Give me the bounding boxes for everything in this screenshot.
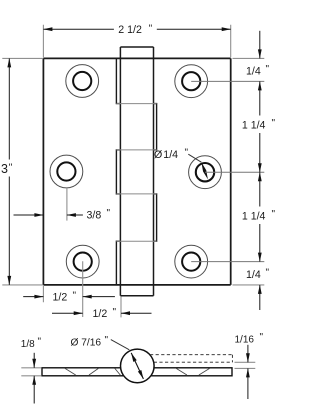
bottom 1/2 dimensions extension lines [43, 261, 121, 317]
dashed folded leaf [150, 355, 232, 363]
extension lines left dimension [2, 58, 43, 285]
dimension line 2 1/2 inch [43, 28, 230, 30]
barrel circle side view [121, 349, 155, 383]
1/8 dimension [21, 368, 41, 376]
svg-text:": " [272, 209, 276, 220]
diameter arrow inside circle [131, 353, 143, 379]
hole middle-right with screw slot [189, 156, 222, 189]
svg-text:Ø 7/16: Ø 7/16 [71, 337, 102, 348]
svg-text:": " [266, 64, 270, 75]
svg-text:1/4: 1/4 [246, 269, 261, 281]
svg-text:1/4: 1/4 [163, 149, 178, 161]
svg-text:1/8: 1/8 [21, 339, 35, 350]
svg-text:": " [272, 118, 276, 129]
svg-text:": " [107, 208, 111, 219]
1/16 dimension [235, 362, 256, 368]
right leaf knuckle protrusions with hooks [154, 104, 157, 242]
right chain dimension arrows [259, 31, 261, 310]
3/8 dimension [66, 188, 68, 221]
svg-text:": " [105, 335, 109, 346]
side view leaf bar [42, 368, 232, 376]
svg-text:3/8: 3/8 [87, 210, 102, 222]
svg-text:": " [260, 332, 264, 343]
hole bottom-right [175, 245, 208, 278]
svg-text:Ø: Ø [154, 149, 162, 161]
svg-text:": " [266, 267, 270, 278]
svg-text:1/16: 1/16 [235, 334, 255, 345]
svg-text:": " [185, 148, 189, 159]
hole bottom-left [66, 245, 99, 278]
svg-text:1 1/4: 1 1/4 [242, 120, 266, 132]
right side extension lines [233, 58, 265, 285]
hole top-left [66, 65, 99, 98]
svg-text:3: 3 [1, 162, 8, 176]
hole leader lines to right chain [191, 81, 264, 261]
svg-text:1/2: 1/2 [93, 308, 108, 320]
svg-text:1 1/4: 1 1/4 [242, 211, 266, 223]
svg-text:1/2: 1/2 [53, 291, 68, 303]
hole top-right [175, 65, 208, 98]
svg-text:2 1/2: 2 1/2 [118, 24, 142, 36]
svg-text:": " [38, 336, 42, 347]
dimension line 3 inch [8, 58, 10, 285]
svg-text:": " [113, 307, 117, 318]
svg-text:1/4: 1/4 [246, 65, 261, 77]
left leaf inner edge segments with hooks [116, 58, 120, 285]
leader to circle [111, 340, 130, 350]
hinge left leaf outline [43, 58, 230, 285]
hinge barrel (knuckle column) [120, 47, 153, 296]
extension lines top dimension [43, 25, 230, 58]
countersink marks [65, 368, 210, 375]
svg-text:": " [9, 163, 13, 174]
hole middle-left [50, 155, 83, 188]
svg-text:": " [73, 290, 77, 301]
knuckle division lines [116, 104, 156, 242]
dimension 1/2 row one [23, 296, 115, 298]
svg-text:": " [149, 23, 153, 34]
dimension 1/2 row two [52, 312, 152, 314]
